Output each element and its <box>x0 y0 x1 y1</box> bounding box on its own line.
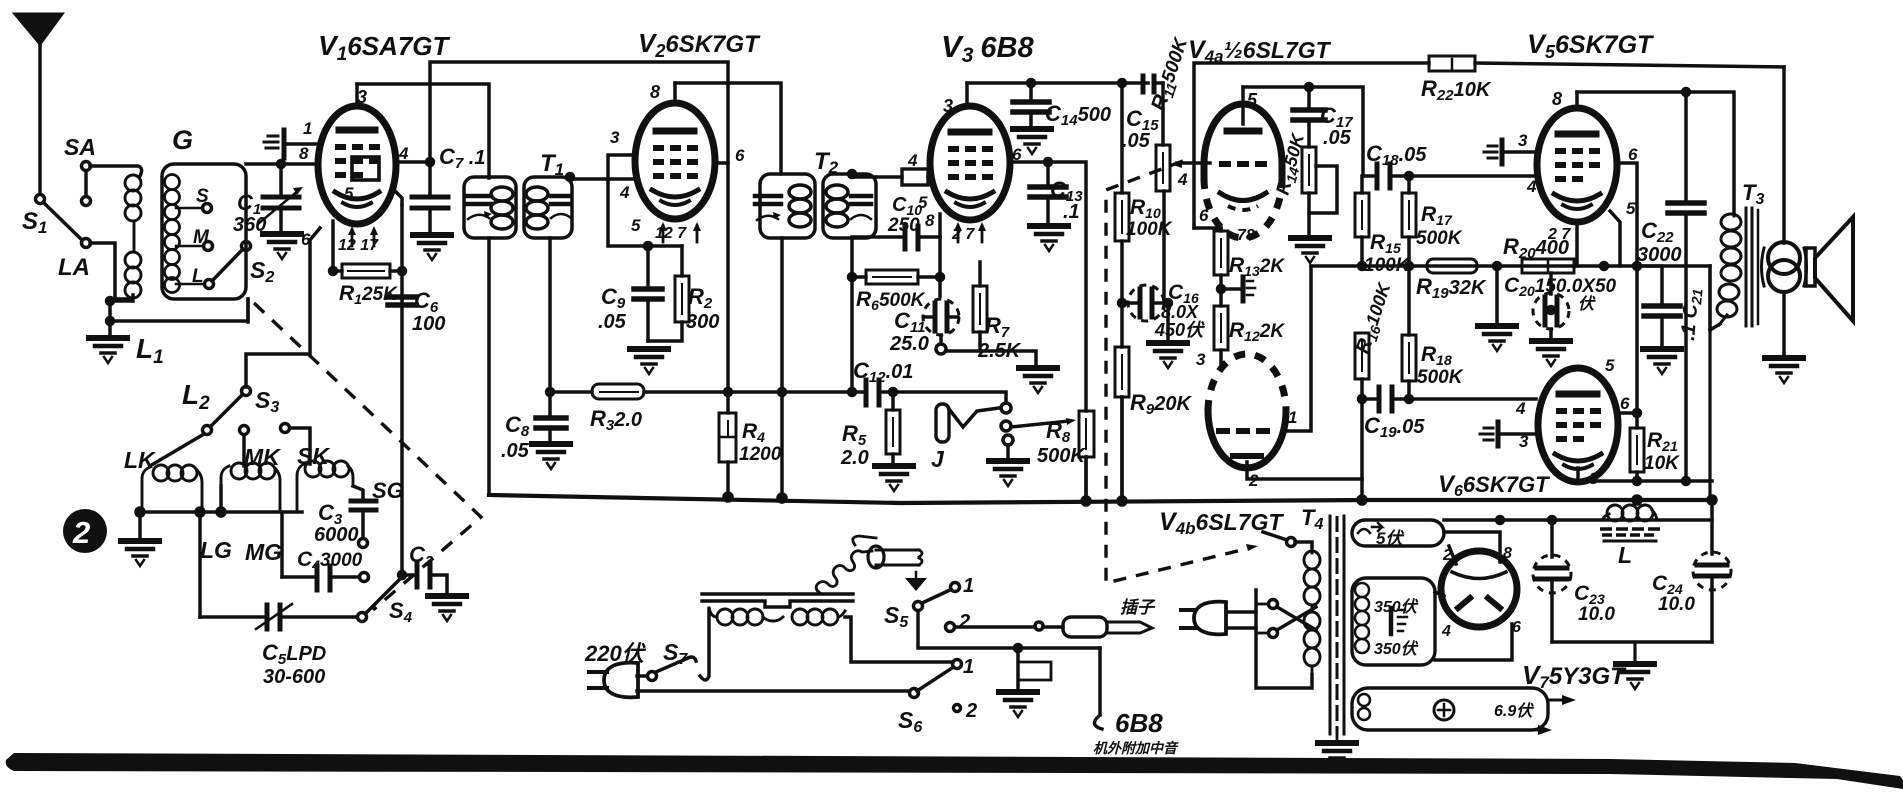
switch S4 <box>358 613 367 622</box>
svg-text:10K: 10K <box>1644 453 1680 474</box>
ground (C8) <box>532 444 570 469</box>
switch S2 arm <box>212 249 243 281</box>
resistor R1 25K <box>333 269 342 273</box>
svg-text:10.0: 10.0 <box>1578 604 1615 625</box>
svg-text:12 7: 12 7 <box>655 225 687 242</box>
S6 contact 1 <box>953 660 962 669</box>
electrolytic C20 150.0 <box>1548 307 1555 314</box>
wire C12 line to jack <box>893 392 1006 403</box>
svg-text:R6500K: R6500K <box>856 288 926 313</box>
svg-text:C22: C22 <box>1641 218 1674 246</box>
svg-text:5: 5 <box>1247 90 1258 110</box>
wire hook 6B8 <box>1098 648 1102 715</box>
link wires box <box>1226 612 1312 688</box>
V1 grid dashes <box>335 147 380 175</box>
X crossover switch <box>1269 600 1278 609</box>
ground (jack) <box>989 461 1027 486</box>
ground (C21) <box>1643 349 1681 374</box>
wire HV bottom to V7 pin6 <box>1435 624 1512 660</box>
V5 pin5 stub <box>1610 211 1620 266</box>
wire 5V to B plus line <box>1444 532 1500 562</box>
svg-text:5: 5 <box>631 216 641 235</box>
capacitor C1 (variable) <box>279 164 283 194</box>
svg-text:1: 1 <box>963 575 974 597</box>
ground (C7) <box>413 235 451 260</box>
svg-text:500K: 500K <box>1037 445 1086 467</box>
T4 core <box>1329 516 1332 734</box>
wire LK contact to coil <box>150 434 204 466</box>
electrolytic C24 10.0 <box>1710 500 1714 554</box>
dashed gang line (volume) <box>1106 161 1250 583</box>
wire voice coil to ground <box>1782 292 1786 356</box>
speaker cone <box>1815 217 1853 321</box>
pilot lamp <box>876 549 919 552</box>
resistor R20 400 <box>1522 259 1574 273</box>
filter choke L <box>1602 505 1657 521</box>
svg-text:500K: 500K <box>1416 228 1463 249</box>
svg-text:4: 4 <box>1515 399 1526 418</box>
S6 contact 2 <box>954 705 961 712</box>
mains plug <box>604 663 638 698</box>
wire MK contact stub <box>242 435 246 466</box>
wire L1 bottom <box>110 299 248 321</box>
svg-text:R4: R4 <box>742 420 765 445</box>
node C1 <box>278 161 285 168</box>
plate rail V2 to T2 <box>675 83 781 174</box>
B+ top rail <box>1194 63 1429 228</box>
svg-text:78: 78 <box>1237 227 1255 244</box>
V1 pin3 stub <box>355 84 359 107</box>
V5 pin8 stub <box>1575 92 1579 108</box>
svg-text:T3: T3 <box>1742 180 1764 208</box>
svg-text:2 7: 2 7 <box>951 226 975 243</box>
svg-text:5: 5 <box>1626 199 1636 218</box>
svg-text:MG: MG <box>245 539 282 565</box>
svg-text:100: 100 <box>412 313 445 335</box>
V1 cathode arc <box>335 192 379 199</box>
wire plug to S7 <box>637 674 647 678</box>
svg-text:插子: 插子 <box>1120 598 1156 617</box>
wire right coil to S6 <box>845 617 953 662</box>
T2 secondary coil <box>826 185 848 199</box>
svg-text:V4b6SL7GT: V4b6SL7GT <box>1159 508 1284 538</box>
wire jack contact3 to ground <box>1006 445 1010 460</box>
svg-text:5伏: 5伏 <box>1376 529 1404 548</box>
svg-text:2 7: 2 7 <box>1547 226 1571 243</box>
svg-text:R7: R7 <box>985 313 1010 341</box>
svg-text:C43000: C43000 <box>297 548 363 573</box>
V6 cathode arc <box>1555 454 1601 461</box>
V1 pin6 cathode drop <box>331 221 335 271</box>
svg-text:4: 4 <box>619 183 630 202</box>
svg-text:8: 8 <box>1552 89 1562 109</box>
svg-text:300: 300 <box>686 311 719 333</box>
V4a inner rail <box>1243 87 1363 176</box>
svg-text:L: L <box>192 266 204 287</box>
svg-text:6: 6 <box>1199 206 1209 225</box>
svg-text:R5: R5 <box>842 421 867 449</box>
resistor R17 500K <box>1402 193 1416 237</box>
wire to V5 grid <box>1409 174 1536 178</box>
svg-text:T4: T4 <box>1301 505 1323 533</box>
wire antenna down <box>38 44 42 194</box>
svg-text:.1: .1 <box>1063 201 1080 223</box>
svg-text:500K: 500K <box>1417 367 1464 388</box>
svg-text:C11: C11 <box>894 308 925 336</box>
ground (C9 R2) <box>630 349 668 374</box>
V2 pin3 wire <box>608 155 682 246</box>
svg-text:C20150.0X50: C20150.0X50 <box>1504 274 1617 299</box>
svg-text:T2: T2 <box>814 148 839 177</box>
resistor R4 1200 <box>719 413 736 462</box>
svg-text:S: S <box>196 186 209 207</box>
ground (C13) <box>1030 226 1068 251</box>
V2 plate bar <box>656 128 694 135</box>
svg-text:1: 1 <box>1288 408 1297 427</box>
grid cap symbol (V1 pin1) <box>282 130 287 158</box>
svg-text:R18: R18 <box>1421 343 1452 368</box>
switch S3 <box>242 387 251 396</box>
node <box>217 508 225 516</box>
svg-text:R21: R21 <box>1647 429 1678 454</box>
capacitor C10 250 <box>852 235 901 239</box>
svg-text:100K: 100K <box>1126 219 1173 240</box>
svg-text:C8: C8 <box>505 412 530 440</box>
svg-text:8: 8 <box>1503 545 1512 562</box>
V4a pin5 stub <box>1241 87 1245 124</box>
V4b grid dashes <box>1216 428 1270 434</box>
svg-text:V26SK7GT: V26SK7GT <box>638 28 761 61</box>
V1 pin4 wire <box>396 160 430 164</box>
svg-text:S5: S5 <box>884 602 909 631</box>
svg-text:6: 6 <box>1620 394 1630 413</box>
T3 core <box>1745 208 1748 326</box>
rectifier V7 <box>1441 551 1517 627</box>
node R1 <box>330 268 337 275</box>
V2 bottom pin arrows <box>659 222 701 242</box>
svg-text:V4a½6SL7GT: V4a½6SL7GT <box>1188 36 1332 66</box>
V3 grid dashes <box>948 149 993 177</box>
V3 pin3 stub <box>965 83 969 106</box>
wire SK right to SG <box>353 486 363 498</box>
svg-text:V36B8: V36B8 <box>941 29 1034 67</box>
svg-text:3: 3 <box>943 96 953 116</box>
V3 plate bar <box>951 129 989 136</box>
svg-text:5: 5 <box>1605 356 1615 375</box>
svg-text:S1: S1 <box>22 208 47 237</box>
HV winding box <box>1352 578 1435 665</box>
svg-text:R125K: R125K <box>339 282 398 307</box>
svg-text:V66SK7GT: V66SK7GT <box>1438 471 1550 500</box>
capacitor C2 <box>402 573 414 577</box>
HV center tap cap <box>1389 608 1394 634</box>
ground (coil bank) <box>138 512 142 540</box>
node mid bus R15 <box>1359 263 1366 270</box>
node mid bus C21 <box>1634 263 1641 270</box>
node LG <box>196 508 204 516</box>
V4a cathode arc <box>1220 193 1266 201</box>
wire S7 to transformer <box>700 609 709 680</box>
svg-text:R2210K: R2210K <box>1421 76 1492 104</box>
capacitor C19 .05 <box>1359 396 1366 403</box>
capacitor C15 .05 <box>1141 76 1146 92</box>
ground (C16) <box>1149 343 1187 368</box>
electrolytic C23 10.0 <box>1550 520 1554 557</box>
electrolytic C11 25.0 <box>937 274 944 281</box>
svg-text:10.0: 10.0 <box>1658 594 1695 615</box>
V4b pin1 wire <box>1284 266 1311 431</box>
heater winding 6.3V box <box>1352 688 1548 730</box>
resistor R22 10K <box>1429 56 1475 71</box>
svg-text:6B8: 6B8 <box>1115 708 1163 738</box>
V4b plate bar <box>1233 453 1261 459</box>
tube V3 envelope <box>930 106 1010 220</box>
ground (C1) <box>263 234 301 259</box>
V1 pin5 wire <box>394 190 402 205</box>
capacitor C17 .05 <box>1307 87 1311 107</box>
switch S7 <box>648 672 657 681</box>
link plug <box>1194 602 1226 635</box>
node C13 <box>1045 159 1052 166</box>
svg-text:5: 5 <box>918 193 928 212</box>
node C7 <box>427 159 434 166</box>
tube V1 envelope <box>318 106 396 224</box>
svg-text:1200: 1200 <box>739 444 782 465</box>
svg-text:S7: S7 <box>663 639 688 668</box>
V6 pin6 wire <box>1618 411 1637 415</box>
phone plug 插子 <box>1043 625 1063 629</box>
oscillator coil G box <box>162 164 246 299</box>
wire T2 sec bottom <box>850 238 854 392</box>
svg-text:LA: LA <box>58 254 90 281</box>
svg-text:R920K: R920K <box>1130 390 1192 418</box>
svg-text:R15: R15 <box>1370 231 1401 256</box>
capacitor C18 .05 <box>1375 164 1380 188</box>
plate rail V1 to T1 <box>357 84 489 178</box>
ground (C2) <box>428 596 466 621</box>
ground (R19 R20 node) <box>1478 326 1516 351</box>
ground (C14) <box>1013 129 1051 154</box>
svg-text:2.0: 2.0 <box>840 447 869 469</box>
svg-text:3: 3 <box>1196 350 1206 369</box>
svg-text:LK: LK <box>124 447 156 473</box>
mid bus line <box>1311 264 1710 268</box>
svg-text:S3: S3 <box>255 387 279 416</box>
V3 cathode arc <box>947 192 993 199</box>
IF transformer T1 primary box <box>464 177 516 238</box>
node <box>107 318 114 325</box>
node <box>107 298 114 305</box>
V6 plate bar <box>1559 391 1597 398</box>
wire to ground <box>108 299 112 337</box>
T1 secondary coil <box>526 187 548 201</box>
svg-text:5: 5 <box>344 184 354 203</box>
svg-text:.05: .05 <box>1323 127 1352 149</box>
resistor R13 2K <box>1219 228 1223 231</box>
V2 cathode arc <box>652 190 698 197</box>
svg-text:R10: R10 <box>1130 196 1161 221</box>
wire T2 sec top to V3 grid rect <box>852 174 902 177</box>
node mid bus R17 <box>1406 263 1413 270</box>
node R10 riser <box>1119 80 1126 87</box>
svg-text:R32.0: R32.0 <box>590 406 642 434</box>
V5 pin6 wire <box>1618 163 1637 266</box>
svg-text:4: 4 <box>398 144 409 163</box>
node C22 <box>1683 89 1690 96</box>
svg-text:2.5K: 2.5K <box>977 340 1022 362</box>
node T2 cross <box>779 389 786 396</box>
V2 pin6 wire <box>715 161 728 165</box>
V1 oscillator grid box <box>352 157 379 180</box>
node pin8 line R21 <box>1634 478 1641 485</box>
ground (R14) <box>1291 238 1329 263</box>
wire LG drop <box>198 512 202 617</box>
V5 grid cap symbol <box>1500 140 1505 164</box>
svg-text:8: 8 <box>1589 469 1599 488</box>
wire C2 node riser <box>400 205 404 575</box>
svg-text:2: 2 <box>1442 547 1452 564</box>
heater B line <box>1444 518 1712 522</box>
bottom black bar <box>6 753 1903 789</box>
svg-text:SA: SA <box>64 134 96 160</box>
T2 primary trimmer <box>755 194 781 199</box>
svg-text:4: 4 <box>1441 623 1451 640</box>
svg-text:C12.01: C12.01 <box>853 358 913 386</box>
resistor R9 20K <box>1119 300 1126 307</box>
wire L1 bottom link <box>246 299 250 322</box>
pilot symbol in 6.3V <box>1434 700 1454 720</box>
svg-text:6000: 6000 <box>314 524 359 546</box>
svg-text:30-600: 30-600 <box>263 666 325 688</box>
svg-text:4: 4 <box>907 151 918 170</box>
jack contact 2 <box>1001 421 1011 431</box>
svg-text:R122K: R122K <box>1229 319 1285 344</box>
transformer T3 coil <box>1717 212 1741 325</box>
bus nodes <box>724 493 732 501</box>
pot R11 500K <box>1156 145 1170 191</box>
svg-text:R16100K: R16100K <box>1352 278 1398 357</box>
top rail A <box>430 62 728 413</box>
coil G loops <box>165 175 180 293</box>
V5 plate rail <box>1577 92 1734 212</box>
svg-text:C18.05: C18.05 <box>1366 141 1427 169</box>
V7 filament bars <box>1458 598 1470 608</box>
V1 bottom pin arrows <box>348 226 378 246</box>
V5 bottom pins stub <box>1575 222 1579 266</box>
svg-text:4: 4 <box>1526 177 1537 196</box>
svg-text:450伏: 450伏 <box>1154 320 1205 340</box>
capacitor C5 (padder, variable) <box>200 615 263 619</box>
svg-text:V75Y3GT: V75Y3GT <box>1522 660 1627 692</box>
pot contact (R7 wiper) <box>936 344 946 354</box>
node R4 cross <box>725 389 732 396</box>
capacitor C12 .01 <box>864 380 869 405</box>
svg-text:6: 6 <box>1512 619 1521 636</box>
resistor R2 300 <box>680 246 684 276</box>
capacitor C7 .1 <box>428 162 432 194</box>
wire S5 contact2 to phone plug <box>955 625 1034 629</box>
6.3V arrows <box>1548 699 1570 702</box>
svg-text:S2: S2 <box>250 257 274 286</box>
V3 plate rail <box>967 81 1148 85</box>
phone jack J <box>936 404 949 442</box>
resistor R15 100K <box>1360 176 1364 193</box>
IF transformer T2 primary box <box>760 174 815 238</box>
speaker frame bar <box>1806 248 1815 286</box>
wire T1 primary bottom drop <box>487 238 491 494</box>
svg-text:V56SK7GT: V56SK7GT <box>1527 29 1655 62</box>
V5 plate bar <box>1558 131 1596 138</box>
wire S5 pivot drop <box>918 611 1100 648</box>
svg-text:6: 6 <box>301 230 311 249</box>
svg-text:R1932K: R1932K <box>1416 274 1487 302</box>
V4a grid dashes <box>1219 161 1267 167</box>
svg-text:350伏: 350伏 <box>1374 640 1419 658</box>
switch S5 arm <box>922 590 950 603</box>
tap L <box>176 283 204 286</box>
V6 pin8 wire <box>1578 468 1712 481</box>
antenna coil LA lower <box>125 252 141 298</box>
node C14 <box>1028 80 1035 87</box>
resistor R14 50K <box>1302 147 1316 193</box>
wire coil bottom <box>110 295 133 301</box>
svg-text:2: 2 <box>1248 471 1259 490</box>
heater primary coil right <box>773 609 845 625</box>
svg-text:6.9伏: 6.9伏 <box>1494 702 1534 720</box>
svg-text:3000: 3000 <box>1637 244 1682 266</box>
svg-text:伏: 伏 <box>1578 295 1596 313</box>
T1 primary trimmer <box>467 194 491 199</box>
svg-text:.05: .05 <box>598 311 627 333</box>
svg-text:12 17: 12 17 <box>338 237 379 254</box>
svg-text:.1 C21: .1 C21 <box>1677 287 1705 341</box>
node jack branch <box>1015 645 1022 652</box>
V3 pin8 riser <box>938 214 942 237</box>
V3 bottom pin arrows <box>954 222 986 242</box>
svg-text:8: 8 <box>925 211 935 230</box>
node C9 <box>645 243 652 250</box>
node R5 <box>890 389 897 396</box>
svg-text:R132K: R132K <box>1229 254 1285 279</box>
svg-text:SK: SK <box>297 443 330 469</box>
heater primary coil left <box>709 608 773 625</box>
wire jack branch ground <box>1016 648 1020 690</box>
svg-text:3: 3 <box>1519 432 1529 451</box>
R14 feedback loop <box>1309 166 1337 213</box>
T1 secondary box <box>524 177 572 238</box>
svg-text:1: 1 <box>303 119 312 138</box>
resistor R19 32K <box>1427 259 1477 273</box>
svg-text:4: 4 <box>1177 170 1188 189</box>
svg-text:V16SA7GT: V16SA7GT <box>318 30 451 65</box>
V6 grid dashes <box>1556 411 1601 439</box>
svg-text:350伏: 350伏 <box>1374 598 1419 616</box>
V2 pin8 stub <box>673 83 677 104</box>
resistor R7 2.5K <box>978 262 982 286</box>
circled figure 2 mark <box>63 509 107 553</box>
tube V5 envelope <box>1537 108 1617 222</box>
ground (R7 wiper) <box>1019 368 1057 393</box>
svg-text:C14500: C14500 <box>1045 101 1111 129</box>
capacitor C4 <box>282 575 314 579</box>
capacitor C8 .05 <box>547 389 554 396</box>
resistor R6 500K <box>852 275 866 279</box>
wire pin2 drop to bus <box>1360 479 1364 499</box>
jack contact 3 <box>1003 435 1013 445</box>
volume pot R8 500K <box>1079 411 1094 457</box>
svg-text:6: 6 <box>1628 145 1638 164</box>
svg-text:1: 1 <box>963 656 974 678</box>
